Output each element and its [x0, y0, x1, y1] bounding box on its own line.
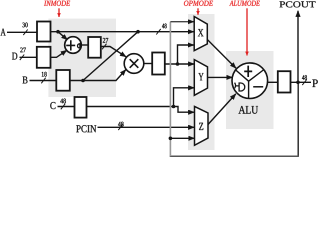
ALU plus sign: [244, 66, 252, 77]
wire B to multiplier: [70, 70, 126, 81]
wire X mux to ALU: [207, 40, 236, 69]
bus width 48 P: [302, 75, 307, 80]
shaded region ALU stage: [226, 51, 274, 129]
bus width 48 PCIN: [118, 122, 124, 127]
port PCIN label: [76, 125, 96, 132]
node PCOUT branch: [296, 81, 300, 85]
wire PCIN to Z mux: [98, 126, 195, 128]
INMODE arrow: [58, 8, 60, 17]
pre-adder plus sign: [66, 40, 75, 50]
port A label: [1, 29, 6, 36]
wire A:B concat to X mux: [51, 31, 194, 33]
pre-adder output port glyph: [78, 43, 80, 48]
wire A to pre-adder diagonal: [58, 32, 67, 40]
wire AD to multiplier: [101, 47, 126, 57]
multiplier cross: [130, 59, 139, 68]
wire A input: [7, 31, 37, 33]
ALU logic gate glyph: [235, 83, 245, 91]
register P: [278, 71, 291, 92]
wire D to pre-adder: [51, 50, 67, 57]
node M branch: [176, 62, 180, 66]
mux X: [194, 17, 207, 51]
P feedback bottom run: [170, 155, 299, 157]
ALU minus sign: [253, 86, 263, 88]
wire C input: [58, 106, 75, 108]
wire C riser to Y mux: [174, 88, 195, 107]
register A: [37, 22, 51, 42]
shaded region X/Y/Z mux column: [188, 14, 215, 150]
label OPMODE: [184, 1, 213, 6]
ALU U3: [232, 63, 268, 99]
wire ALU to P register: [268, 81, 278, 83]
node C branch: [172, 105, 176, 109]
bus slash A:B: [156, 29, 160, 35]
bus slash PCIN: [118, 125, 122, 131]
mux Y label: [198, 73, 203, 80]
ALU label: [238, 106, 258, 114]
wire Y mux to ALU: [208, 76, 233, 78]
register B: [56, 70, 70, 91]
bus width 27: [103, 38, 108, 43]
wire P output: [291, 81, 312, 83]
wire B input: [30, 80, 57, 82]
port B label: [23, 77, 28, 84]
wire C to Z mux: [87, 107, 195, 113]
wire pre-adder to AD register: [81, 44, 88, 46]
P feedback right riser: [297, 82, 299, 156]
node A:B join: [136, 30, 140, 34]
bus slash 27: [102, 44, 106, 50]
register C: [75, 97, 87, 118]
shaded region input/pre-adder stage: [48, 19, 116, 97]
port P label: [312, 79, 317, 87]
port D label: [12, 53, 17, 60]
mux Z label: [199, 123, 203, 130]
bus width 18: [42, 72, 47, 77]
register AD: [88, 37, 101, 58]
node A branch: [56, 30, 60, 34]
bus width 48 C: [60, 99, 66, 104]
bus slash A: [23, 30, 27, 36]
label INMODE: [44, 1, 70, 6]
multiplier U2: [124, 54, 144, 74]
ALU divider lines: [235, 69, 264, 98]
bus slash C: [61, 104, 65, 110]
bus width 30: [23, 23, 28, 28]
bus slash D: [20, 55, 24, 61]
pre-adder U1: [65, 37, 82, 54]
wire Z mux to ALU: [208, 94, 236, 125]
mux Y: [194, 60, 207, 96]
port C label: [50, 102, 55, 109]
label ALUMODE: [229, 1, 259, 6]
label PCOUT: [280, 1, 316, 7]
wire P feedback to X mux: [170, 21, 193, 23]
node B branch: [81, 79, 85, 83]
wire B concat diagonal to A:B: [83, 32, 138, 81]
node P feedback Z branch: [169, 137, 173, 141]
bus width 27 D: [20, 48, 26, 53]
mux Z: [195, 106, 209, 145]
ALUMODE arrow: [246, 8, 248, 55]
bus slash P: [302, 80, 306, 86]
register M: [152, 53, 165, 75]
bus width 48 A:B: [162, 24, 167, 29]
wire M riser to X mux: [178, 45, 194, 64]
mux X label: [198, 29, 204, 36]
register D: [37, 47, 51, 68]
wire P feedback to Z mux: [170, 137, 194, 139]
P feedback left riser: [169, 22, 171, 157]
OPMODE arrow: [197, 8, 199, 15]
PCOUT arrow riser: [297, 11, 299, 83]
wire D input: [20, 56, 37, 58]
wire multiplier to M register: [144, 63, 152, 65]
bus slash B: [41, 78, 45, 84]
wire M to Y mux: [165, 63, 194, 65]
